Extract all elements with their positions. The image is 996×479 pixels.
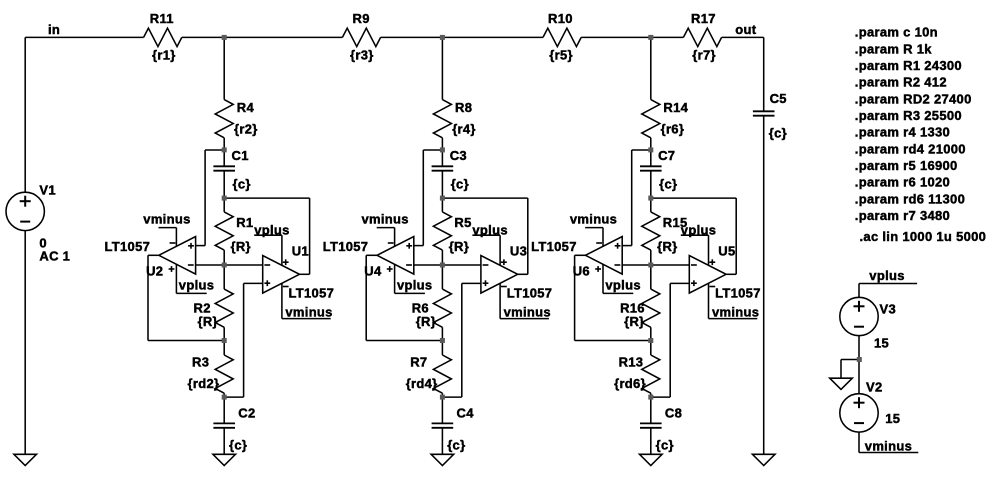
svg-text:vplus: vplus — [605, 278, 640, 293]
svg-text:LT1057: LT1057 — [715, 286, 761, 301]
svg-text:.param r4 1330: .param r4 1330 — [855, 125, 950, 140]
svg-text:vminus: vminus — [143, 212, 190, 227]
svg-text:vminus: vminus — [362, 212, 409, 227]
svg-text:{c}: {c} — [769, 126, 787, 141]
svg-text:.param r7 3480: .param r7 3480 — [855, 208, 950, 223]
svg-text:R5: R5 — [454, 215, 471, 230]
svg-text:U3: U3 — [510, 244, 527, 259]
svg-text:R11: R11 — [150, 11, 174, 26]
svg-text:.param R2 412: .param R2 412 — [855, 75, 947, 90]
svg-text:AC 1: AC 1 — [39, 249, 70, 264]
svg-text:vplus: vplus — [397, 278, 432, 293]
svg-text:V3: V3 — [880, 302, 897, 317]
svg-text:{rd4}: {rd4} — [406, 376, 438, 391]
svg-text:R7: R7 — [410, 355, 427, 370]
svg-text:C3: C3 — [450, 148, 467, 163]
svg-text:{r6}: {r6} — [661, 122, 685, 137]
svg-text:V1: V1 — [39, 183, 56, 198]
svg-text:vplus: vplus — [472, 222, 507, 237]
svg-text:vplus: vplus — [869, 268, 904, 283]
svg-text:R3: R3 — [192, 355, 209, 370]
svg-text:.param rd4 21000: .param rd4 21000 — [855, 141, 966, 156]
svg-text:R4: R4 — [237, 100, 255, 115]
svg-text:LT1057: LT1057 — [507, 286, 553, 301]
svg-text:C7: C7 — [658, 148, 675, 163]
svg-text:{R}: {R} — [231, 239, 251, 254]
svg-text:vplus: vplus — [179, 278, 214, 293]
svg-text:R8: R8 — [455, 100, 472, 115]
svg-text:vplus: vplus — [681, 222, 716, 237]
svg-text:{R}: {R} — [449, 239, 469, 254]
svg-text:{rd6}: {rd6} — [614, 376, 646, 391]
svg-text:.param c 10n: .param c 10n — [855, 25, 938, 40]
svg-text:{R}: {R} — [416, 314, 436, 329]
svg-text:{c}: {c} — [447, 438, 465, 453]
svg-text:vminus: vminus — [285, 305, 332, 320]
svg-text:{r7}: {r7} — [692, 48, 716, 63]
svg-text:U1: U1 — [292, 244, 309, 259]
svg-text:C1: C1 — [232, 148, 249, 163]
svg-text:LT1057: LT1057 — [323, 239, 369, 254]
svg-text:{R}: {R} — [624, 314, 644, 329]
svg-text:{R}: {R} — [198, 314, 218, 329]
svg-text:R13: R13 — [619, 355, 644, 370]
svg-text:R10: R10 — [548, 11, 573, 26]
svg-text:U6: U6 — [573, 264, 590, 279]
svg-text:in: in — [48, 22, 60, 37]
svg-text:vminus: vminus — [712, 305, 759, 320]
svg-text:.param r5 16900: .param r5 16900 — [855, 158, 958, 173]
svg-text:out: out — [735, 22, 756, 37]
svg-text:R9: R9 — [353, 11, 370, 26]
svg-text:U2: U2 — [146, 264, 163, 279]
svg-text:vminus: vminus — [504, 305, 551, 320]
svg-text:vminus: vminus — [570, 212, 617, 227]
svg-text:R1: R1 — [236, 215, 253, 230]
svg-text:vminus: vminus — [865, 438, 912, 453]
svg-text:C5: C5 — [770, 91, 787, 106]
svg-text:{r4}: {r4} — [452, 122, 476, 137]
svg-text:{c}: {c} — [659, 177, 677, 192]
svg-text:.param r6 1020: .param r6 1020 — [855, 175, 950, 190]
svg-text:{r1}: {r1} — [152, 48, 176, 63]
svg-text:.param R1 24300: .param R1 24300 — [855, 58, 962, 73]
svg-text:{r5}: {r5} — [549, 48, 573, 63]
svg-text:{c}: {c} — [656, 438, 674, 453]
svg-text:V2: V2 — [866, 380, 883, 395]
svg-text:.param RD2 27400: .param RD2 27400 — [855, 91, 972, 106]
svg-text:.ac lin 1000 1u 5000: .ac lin 1000 1u 5000 — [860, 229, 987, 244]
svg-text:{c}: {c} — [451, 177, 469, 192]
svg-text:LT1057: LT1057 — [289, 286, 335, 301]
svg-text:{rd2}: {rd2} — [188, 376, 220, 391]
svg-text:.param rd6 11300: .param rd6 11300 — [855, 191, 965, 206]
svg-text:R17: R17 — [691, 11, 716, 26]
svg-text:{r2}: {r2} — [234, 122, 258, 137]
svg-text:{c}: {c} — [229, 438, 247, 453]
svg-text:.param R 1k: .param R 1k — [855, 41, 932, 56]
svg-text:.param R3 25500: .param R3 25500 — [855, 108, 962, 123]
svg-text:U4: U4 — [364, 264, 382, 279]
svg-text:LT1057: LT1057 — [105, 239, 151, 254]
svg-text:C4: C4 — [457, 406, 475, 421]
svg-text:{R}: {R} — [657, 239, 677, 254]
svg-text:15: 15 — [885, 411, 900, 426]
svg-text:LT1057: LT1057 — [531, 239, 577, 254]
svg-text:C2: C2 — [238, 406, 255, 421]
svg-text:{r3}: {r3} — [350, 48, 374, 63]
svg-text:R14: R14 — [663, 100, 688, 115]
svg-text:15: 15 — [874, 336, 889, 351]
svg-text:C8: C8 — [665, 406, 682, 421]
svg-text:{c}: {c} — [233, 177, 251, 192]
svg-text:vplus: vplus — [254, 222, 289, 237]
svg-text:U5: U5 — [718, 244, 735, 259]
